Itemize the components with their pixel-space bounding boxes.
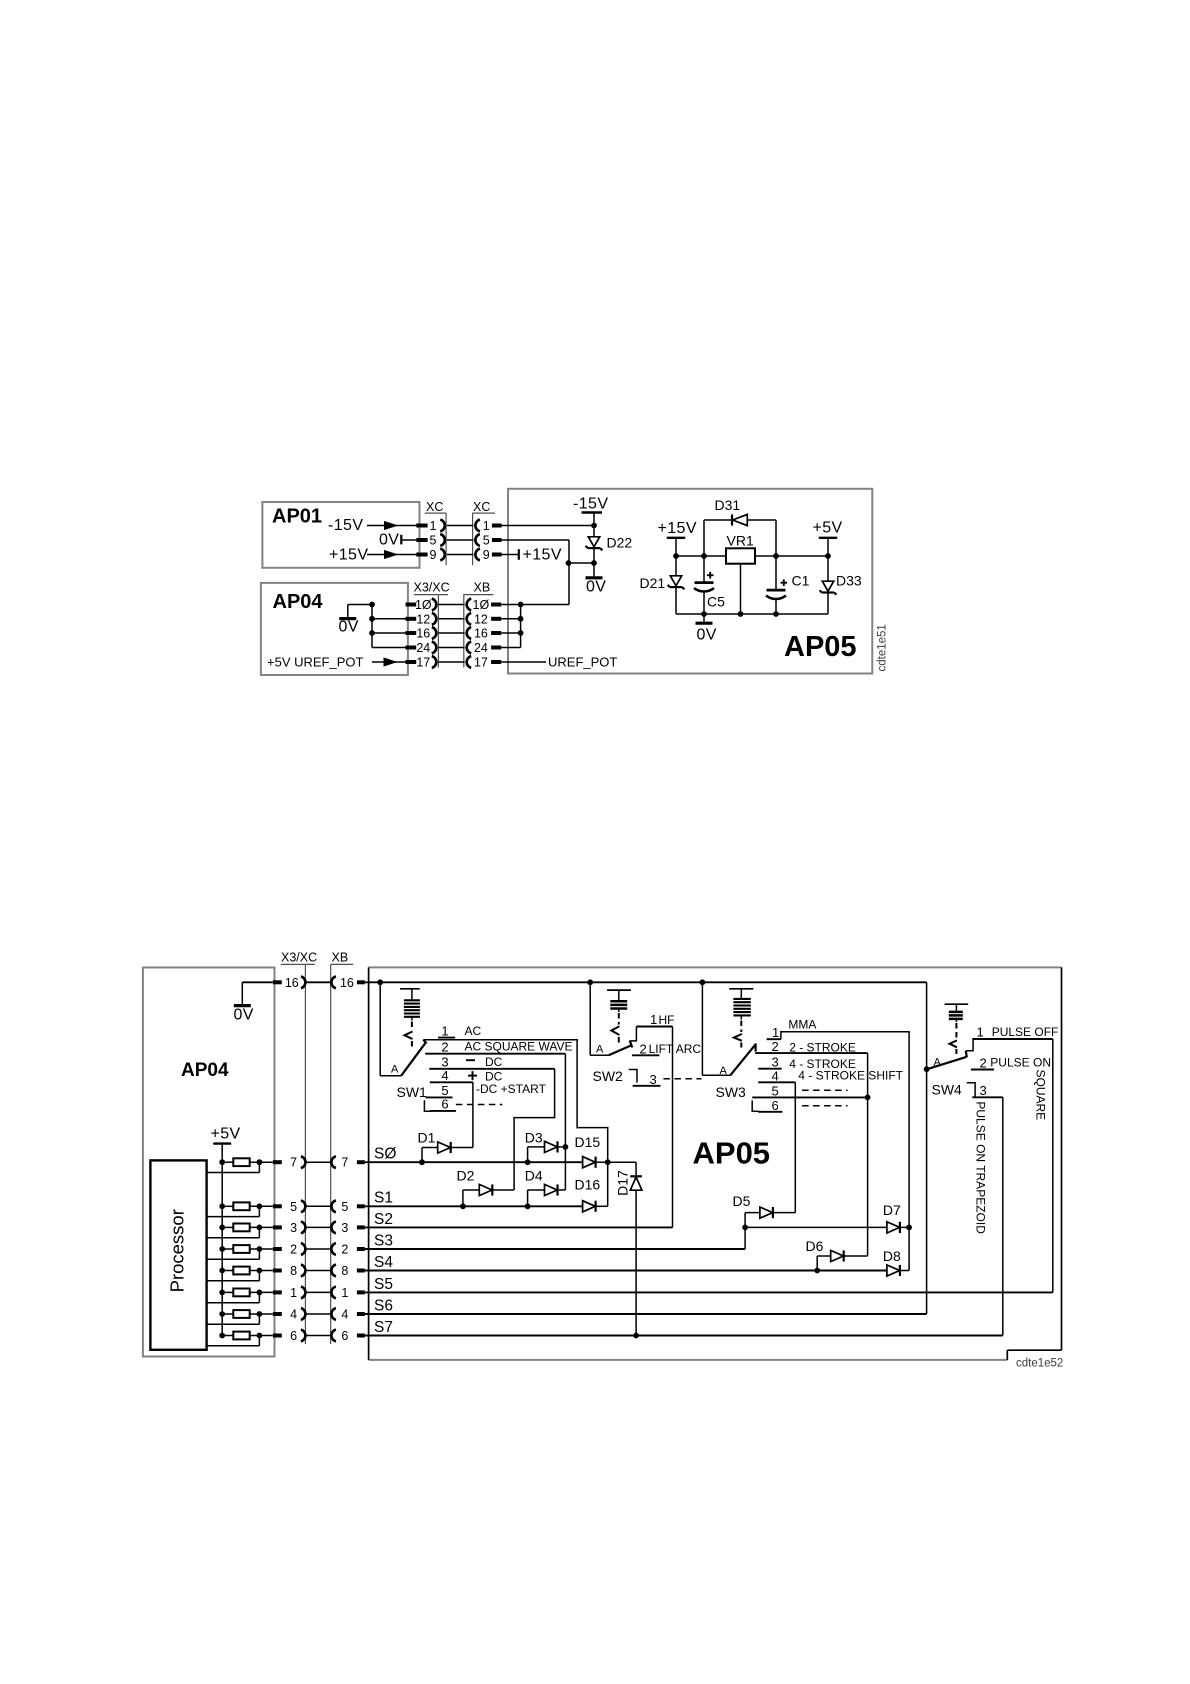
svg-text:16: 16 [285, 976, 299, 990]
svg-text:D8: D8 [883, 1248, 901, 1264]
SW3 actuator coil [729, 989, 753, 1048]
wire XB24 [501, 647, 520, 649]
label PULSE ON TRAPEZOID [974, 1101, 988, 1234]
svg-text:2: 2 [772, 1039, 779, 1054]
SW1 contact 4 (+DC) and wire to D1 [430, 1068, 503, 1148]
SW2 contact 2 (LIFT ARC) [632, 1041, 701, 1056]
processor output wire row 6 [207, 1336, 260, 1346]
svg-text:3: 3 [980, 1083, 987, 1098]
svg-text:D22: D22 [607, 535, 633, 551]
SW1 label [397, 1084, 428, 1100]
svg-text:1: 1 [341, 1286, 348, 1300]
wire 0V to SW1 pivot [380, 982, 401, 1076]
svg-text:24: 24 [474, 641, 488, 655]
S2 line to SW2 HF wire [365, 1226, 673, 1228]
svg-text:+15V: +15V [658, 520, 697, 537]
wire XB16 [501, 632, 520, 634]
svg-text:PULSE ON TRAPEZOID: PULSE ON TRAPEZOID [974, 1101, 988, 1234]
svg-text:S6: S6 [374, 1298, 393, 1315]
svg-text:AP05: AP05 [693, 1136, 771, 1171]
wire 0V to SW3 pivot [702, 982, 730, 1075]
svg-text:X3/XC: X3/XC [414, 581, 450, 595]
svg-text:D6: D6 [806, 1238, 824, 1254]
processor output wire row 8 [207, 1271, 260, 1281]
0V net wire XC5 to XB bus [502, 540, 569, 605]
SW2 contact 3 [633, 1072, 702, 1087]
0V distribution wire from pin 16 [365, 979, 927, 985]
svg-text:4: 4 [290, 1308, 297, 1322]
svg-text:cdte1e51: cdte1e51 [877, 624, 889, 671]
S0 line [365, 1159, 583, 1165]
svg-text:+5V: +5V [211, 1126, 241, 1143]
svg-text:4: 4 [341, 1308, 348, 1322]
svg-text:A: A [720, 1065, 728, 1077]
AP01 label [272, 506, 322, 528]
svg-text:XB: XB [474, 581, 491, 595]
connector XC pin 5 (AP01 side) [416, 534, 445, 548]
pull-up resistor row 3 [219, 1224, 273, 1232]
SW3 end stop [752, 1100, 758, 1111]
0V ground symbol AP05 [696, 614, 717, 644]
svg-text:1: 1 [772, 1025, 779, 1040]
connector XB label and bracket [463, 581, 493, 668]
wire node to D7 [745, 1226, 887, 1228]
diode D7 [883, 1202, 912, 1233]
svg-text:D1: D1 [418, 1130, 436, 1146]
connector XC pin 1 (AP01 side) [416, 519, 445, 533]
wire XC pin 1 to pin 1 [447, 525, 473, 527]
+5V supply AP04 [211, 1126, 241, 1336]
pull-up resistor row 5 [219, 1202, 273, 1210]
svg-text:XC: XC [426, 500, 443, 514]
svg-text:1Ø: 1Ø [473, 598, 490, 612]
0V ground AP04 [339, 605, 373, 636]
AP04 board outline [261, 583, 408, 675]
svg-text:S2: S2 [374, 1211, 393, 1228]
svg-text:S4: S4 [374, 1254, 393, 1271]
pull-up resistor row 2 [219, 1245, 273, 1253]
AP05 label [784, 631, 857, 663]
wire XB12 [501, 618, 520, 620]
connector XC (AP05 side) label and bracket [472, 500, 495, 565]
+15V rail wire [673, 553, 831, 559]
svg-text:D4: D4 [525, 1168, 543, 1184]
svg-text:1: 1 [483, 519, 490, 533]
+5V UREF_POT output of AP04 [267, 655, 406, 670]
0V wire to SW4 pivot and S6 [924, 982, 930, 1314]
svg-text:1: 1 [430, 519, 437, 533]
svg-text:8: 8 [290, 1264, 297, 1278]
voltage regulator VR1 [726, 533, 755, 615]
svg-text:cdte1e52: cdte1e52 [1016, 1358, 1063, 1370]
svg-text:+15V: +15V [329, 547, 368, 564]
SW3 label [716, 1084, 747, 1100]
svg-text:2: 2 [640, 1041, 647, 1056]
connector XC pin 9 (AP05 side) [475, 548, 501, 562]
svg-text:7: 7 [341, 1156, 348, 1170]
wire XB10 to 0V bus [501, 602, 523, 608]
connector pin pair 1 (lower) [273, 1286, 365, 1300]
0V ground under D22 [566, 560, 607, 595]
svg-text:7: 7 [290, 1156, 297, 1170]
wire XC pin 5 to pin 5 [447, 539, 473, 541]
svg-text:A: A [596, 1044, 604, 1056]
svg-text:1: 1 [977, 1024, 984, 1039]
svg-text:A: A [391, 1064, 399, 1076]
connector X3/XC pin 10 (AP04 side) [406, 598, 437, 612]
svg-text:24: 24 [416, 641, 430, 655]
diode D8 and riser to D7 node [883, 1227, 909, 1276]
connector pin pair 5 (lower) [273, 1200, 365, 1214]
svg-text:6: 6 [341, 1329, 348, 1343]
connector X3/XC pin 17 (AP04 side) [406, 656, 437, 670]
zener diode D21 [640, 556, 685, 614]
net label S3 [374, 1233, 393, 1250]
SW2 switch arm [596, 1041, 632, 1056]
svg-text:UREF_POT: UREF_POT [548, 655, 617, 670]
connector pin pair 3 (lower) [273, 1221, 365, 1235]
svg-text:S7: S7 [374, 1319, 393, 1336]
+15V tap at XC9 [502, 547, 562, 564]
svg-text:9: 9 [430, 548, 437, 562]
+15V output of AP01 [329, 547, 419, 564]
diode D16 [575, 1176, 608, 1212]
svg-text:6: 6 [772, 1098, 779, 1113]
connector XB label and bracket (lower) [331, 951, 354, 1345]
svg-text:4: 4 [441, 1068, 448, 1083]
svg-text:2: 2 [441, 1039, 448, 1054]
processor output wire row 7 [207, 1162, 260, 1172]
Processor block [150, 1160, 206, 1349]
svg-text:17: 17 [474, 656, 488, 670]
svg-text:SQUARE: SQUARE [1033, 1070, 1047, 1121]
svg-text:3: 3 [650, 1072, 657, 1087]
S3 line and riser to D5/D7 node [365, 1225, 748, 1250]
svg-text:SØ: SØ [374, 1146, 396, 1163]
0V bus AP04 side [369, 602, 375, 648]
svg-text:VR1: VR1 [727, 533, 754, 549]
-15V output of AP01 [328, 517, 419, 534]
svg-text:17: 17 [416, 656, 430, 670]
connector XB pin 16 (AP05 side) [467, 627, 502, 641]
SW1 arm wire to D15/D16 node [423, 1040, 607, 1207]
SW4 contact 1 (PULSE OFF) and wire to S5 [966, 1024, 1059, 1292]
SW4 switch arm [927, 1051, 967, 1069]
wires 0V bus to pins 12/16/24 [372, 619, 406, 648]
SW3 contact 6 [758, 1098, 847, 1113]
SW3 contact 4 (4-STROKE SHIFT) and wire to D5 [758, 1068, 903, 1212]
SW1 contact 5 (-DC +START) [426, 1082, 547, 1098]
SW2 label [593, 1068, 624, 1084]
SW1 contact 1 (AC) [438, 1023, 481, 1038]
svg-text:D31: D31 [715, 497, 741, 513]
svg-text:XC: XC [473, 500, 490, 514]
svg-text:2: 2 [290, 1243, 297, 1257]
svg-text:D15: D15 [575, 1134, 601, 1150]
0V bottom rail wire [676, 611, 828, 617]
zener diode D22 [586, 535, 633, 564]
wire X3/XC pin 17 to XB pin 17 [438, 661, 464, 663]
svg-text:HF: HF [659, 1013, 675, 1027]
svg-text:AP01: AP01 [272, 506, 322, 528]
wire XC1 to -15V rail [502, 523, 597, 529]
AP01 board outline [262, 502, 419, 568]
AP04 board outline (lower diagram) [143, 968, 275, 1357]
svg-text:4: 4 [772, 1068, 779, 1083]
svg-text:8: 8 [341, 1264, 348, 1278]
svg-text:0V: 0V [339, 619, 359, 636]
svg-text:+15V: +15V [523, 547, 562, 564]
wire X3/XC pin 10 to XB pin 10 [438, 604, 464, 606]
SW1 contact 2 (AC SQUARE WAVE) and wire to D3/D4 [425, 1039, 572, 1190]
SW3 switch arm [720, 1044, 757, 1078]
SW1 contact 6 [430, 1097, 503, 1112]
svg-text:1Ø: 1Ø [415, 598, 432, 612]
drawing code cdte1e52 [1016, 1358, 1063, 1370]
diode D3 [525, 1130, 569, 1163]
svg-text:1: 1 [650, 1012, 657, 1027]
svg-text:D17: D17 [615, 1170, 631, 1196]
svg-text:D5: D5 [733, 1193, 751, 1209]
diode D1 [418, 1130, 473, 1163]
SW4 contact 3 and wire to S7 [972, 1083, 1003, 1335]
svg-text:-15V: -15V [573, 496, 608, 513]
SW1 actuator coil [400, 989, 420, 1047]
svg-text:PULSE OFF: PULSE OFF [992, 1025, 1059, 1039]
diode D4 [525, 1168, 566, 1207]
UREF_POT net [501, 655, 617, 670]
svg-text:S3: S3 [374, 1233, 393, 1250]
SW1 switch arm [391, 1040, 427, 1076]
svg-text:4 - STROKE SHIFT: 4 - STROKE SHIFT [798, 1068, 903, 1082]
AP05 label (lower) [693, 1136, 771, 1171]
svg-text:LIFT ARC: LIFT ARC [649, 1042, 702, 1056]
net label S2 [374, 1211, 393, 1228]
svg-text:1: 1 [290, 1286, 297, 1300]
connector XC pin 5 (AP05 side) [475, 534, 501, 548]
svg-text:A: A [934, 1057, 942, 1069]
connector X3/XC pin 16 (AP04 side) [406, 627, 437, 641]
0V ground AP04 (lower) [234, 982, 273, 1023]
svg-text:16: 16 [474, 627, 488, 641]
svg-text:0V: 0V [586, 579, 606, 596]
net label S0 [374, 1146, 396, 1163]
SW4 contact 2 (PULSE ON) [971, 1055, 1051, 1070]
connector pin pair 6 (lower) [273, 1329, 365, 1343]
svg-text:12: 12 [416, 612, 430, 626]
SW2 contact 1 (HF) and wire to S2 [629, 1012, 674, 1227]
svg-text:6: 6 [290, 1329, 297, 1343]
svg-text:2: 2 [980, 1055, 987, 1070]
svg-text:SW4: SW4 [932, 1082, 963, 1098]
svg-text:D3: D3 [525, 1130, 543, 1146]
svg-text:Processor: Processor [167, 1209, 188, 1292]
connector pin pair 4 (lower) [273, 1308, 365, 1322]
svg-text:SW1: SW1 [397, 1084, 428, 1100]
S6 line [365, 1313, 927, 1315]
diode D2 [457, 1168, 515, 1207]
svg-text:-15V: -15V [328, 517, 363, 534]
+15V power symbol AP05 [658, 520, 697, 556]
S4 line [365, 1268, 887, 1274]
pull-up resistor row 6 [219, 1332, 273, 1340]
svg-text:12: 12 [474, 612, 488, 626]
SW2 actuator coil [607, 990, 631, 1046]
processor output wire row 1 [207, 1292, 260, 1302]
svg-text:3: 3 [290, 1221, 297, 1235]
wire 0V to SW2 pivot [590, 982, 608, 1055]
diode D17 (vertical) and wire to S7 [615, 1162, 642, 1338]
pull-up resistor row 8 [219, 1267, 273, 1275]
connector XB pin 12 (AP05 side) [467, 612, 502, 626]
SW3 contact 1 (MMA) and wire to D7/D8 node [767, 1017, 910, 1227]
svg-text:S5: S5 [374, 1276, 393, 1293]
svg-text:SW3: SW3 [716, 1084, 747, 1100]
pull-up resistor row 4 [219, 1310, 273, 1318]
svg-text:PULSE ON: PULSE ON [990, 1056, 1051, 1070]
connector pin pair 16 (lower) [273, 976, 365, 990]
S1 line [365, 1203, 583, 1209]
capacitor C1 [766, 556, 810, 614]
connector X3/XC pin 24 (AP04 side) [406, 641, 437, 655]
drawing code cdte1e51 [877, 624, 889, 671]
svg-text:16: 16 [416, 627, 430, 641]
diode D15 [575, 1134, 608, 1168]
SW4 end stop [967, 1083, 975, 1098]
wire X3/XC pin 12 to XB pin 12 [438, 618, 464, 620]
connector pin pair 8 (lower) [273, 1264, 365, 1278]
SW3 contact 2 (2-STROKE) and wire to D6 [755, 1039, 867, 1256]
svg-text:5: 5 [341, 1200, 348, 1214]
svg-text:AP05: AP05 [784, 631, 857, 663]
svg-text:6: 6 [441, 1097, 448, 1112]
0V bus AP05 side [518, 605, 524, 648]
SW1 contact 3 (-DC) and wire to D2 [429, 1055, 554, 1191]
wire X3/XC pin 16 to XB pin 16 [438, 632, 464, 634]
svg-text:D16: D16 [575, 1176, 601, 1192]
svg-text:5: 5 [430, 534, 437, 548]
connector XC (AP01 side) label and bracket [425, 500, 446, 565]
svg-text:AP04: AP04 [273, 591, 324, 613]
svg-text:0V: 0V [697, 627, 717, 644]
svg-text:S1: S1 [374, 1190, 393, 1207]
svg-text:MMA: MMA [788, 1017, 816, 1031]
SW3 contact 3 (4-STROKE) [758, 1055, 856, 1072]
net label S7 [374, 1319, 393, 1336]
net label S4 [374, 1254, 393, 1271]
svg-text:X3/XC: X3/XC [281, 951, 317, 965]
diode D6 [806, 1238, 868, 1271]
AP04 label (lower) [181, 1060, 229, 1081]
svg-text:1: 1 [441, 1023, 448, 1038]
svg-text:XB: XB [332, 951, 349, 965]
svg-text:AC SQUARE WAVE: AC SQUARE WAVE [465, 1040, 573, 1054]
0V output of AP01 [379, 532, 419, 549]
S5 line [365, 1291, 1053, 1293]
processor output wire row 4 [207, 1314, 260, 1324]
processor output wire row 3 [207, 1227, 260, 1237]
svg-text:AC: AC [465, 1024, 482, 1038]
net label S5 [374, 1276, 393, 1293]
wire XC pin 9 to pin 9 [447, 554, 473, 556]
S7 line [365, 1335, 1003, 1337]
label SQUARE [1033, 1070, 1047, 1121]
wire X3/XC pin 24 to XB pin 24 [438, 647, 464, 649]
svg-text:DC: DC [485, 1055, 503, 1069]
connector X3/XC label and bracket (lower) [281, 951, 317, 1345]
svg-text:SW2: SW2 [593, 1068, 624, 1084]
svg-text:9: 9 [483, 548, 490, 562]
connector XC pin 1 (AP05 side) [475, 519, 501, 533]
diode D31 [715, 497, 748, 526]
processor output wire row 5 [207, 1206, 260, 1216]
connector XC pin 9 (AP01 side) [416, 548, 445, 562]
zener diode D33 [820, 556, 862, 614]
-15V power symbol [573, 496, 608, 537]
svg-text:5: 5 [772, 1083, 779, 1098]
net label S6 [374, 1298, 393, 1315]
connector pin pair 2 (lower) [273, 1243, 365, 1257]
diode D5 [733, 1193, 796, 1227]
svg-text:D2: D2 [457, 1168, 475, 1184]
svg-text:5: 5 [483, 534, 490, 548]
node D15/D16/D17 [605, 1159, 636, 1165]
AP05 board outline (lower diagram, with code notch) [369, 967, 1062, 1360]
svg-text:+5V UREF_POT: +5V UREF_POT [267, 655, 364, 670]
svg-text:2: 2 [341, 1243, 348, 1257]
svg-text:0V: 0V [234, 1007, 254, 1024]
pull-up resistor row 1 [219, 1289, 273, 1297]
AP04 label [273, 591, 324, 613]
svg-text:C5: C5 [707, 594, 725, 610]
svg-text:5: 5 [290, 1200, 297, 1214]
connector XB pin 10 (AP05 side) [467, 598, 502, 612]
SW4 actuator coil [945, 1004, 969, 1054]
svg-text:16: 16 [340, 976, 354, 990]
connector XB pin 24 (AP05 side) [467, 641, 502, 655]
svg-text:-DC +START: -DC +START [476, 1082, 547, 1096]
pull-up resistor row 7 [219, 1158, 273, 1166]
svg-text:D33: D33 [836, 573, 862, 589]
capacitor C5 [694, 556, 725, 614]
SW4 label [932, 1082, 963, 1098]
connector XB pin 17 (AP05 side) [467, 656, 502, 670]
svg-text:C1: C1 [792, 573, 810, 589]
svg-text:D7: D7 [883, 1202, 901, 1218]
svg-text:AP04: AP04 [181, 1060, 229, 1081]
svg-text:D21: D21 [640, 575, 666, 591]
svg-text:0V: 0V [379, 532, 399, 549]
connector X3/XC pin 12 (AP04 side) [406, 612, 437, 626]
diode D31 bypass loop wire [704, 520, 776, 556]
svg-text:3: 3 [341, 1221, 348, 1235]
AP05 board outline [508, 489, 872, 674]
+5V power symbol AP05 [813, 520, 843, 557]
SW1 end stop [424, 1100, 431, 1111]
connector pin pair 7 (lower) [273, 1156, 365, 1170]
SW3 contact 5 and junction with contact 2 net [752, 1083, 870, 1100]
connector X3/XC label and bracket [414, 581, 450, 668]
svg-text:+5V: +5V [813, 520, 843, 537]
net label S1 [374, 1190, 393, 1207]
svg-text:2 - STROKE: 2 - STROKE [789, 1041, 856, 1055]
SW2 end stop [629, 1070, 637, 1083]
processor output wire row 2 [207, 1249, 260, 1259]
